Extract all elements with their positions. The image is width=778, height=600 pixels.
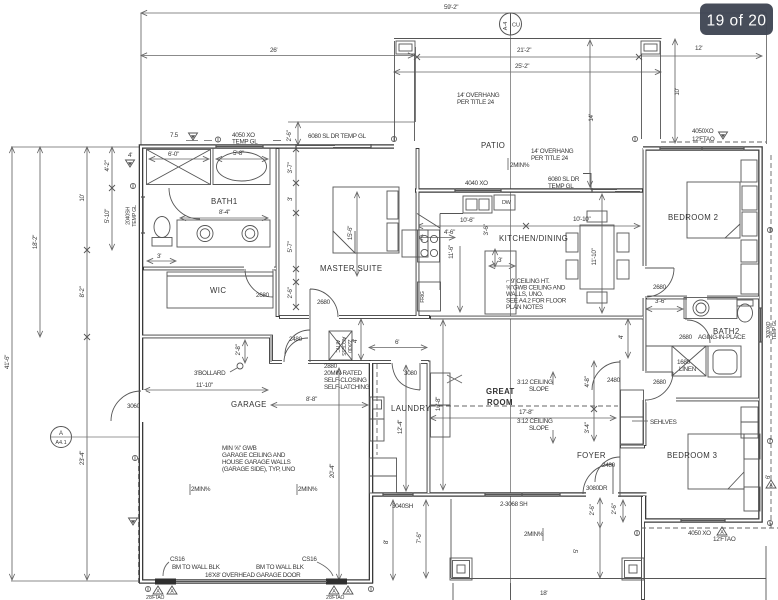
svg-text:3'-6": 3'-6"	[483, 224, 490, 235]
svg-text:SLOPE: SLOPE	[529, 425, 549, 432]
svg-text:2480: 2480	[607, 377, 621, 384]
svg-text:12'FTAO: 12'FTAO	[692, 136, 715, 143]
svg-text:8'-2": 8'-2"	[79, 286, 86, 297]
svg-text:8'-4": 8'-4"	[219, 209, 230, 216]
svg-text:41'-6": 41'-6"	[4, 355, 11, 369]
svg-text:PLAN NOTES: PLAN NOTES	[506, 304, 543, 311]
svg-text:26': 26'	[270, 47, 277, 54]
svg-text:2-3068 SH: 2-3068 SH	[500, 501, 528, 508]
svg-text:16'-8": 16'-8"	[435, 397, 442, 411]
svg-text:8': 8'	[383, 540, 390, 544]
svg-text:10'-6": 10'-6"	[460, 217, 474, 224]
svg-text:10': 10'	[674, 88, 681, 95]
svg-text:MIN ⅝" GWB: MIN ⅝" GWB	[222, 445, 257, 452]
svg-text:2880: 2880	[324, 363, 338, 370]
svg-text:(GARAGE SIDE), TYP, UNO: (GARAGE SIDE), TYP, UNO	[222, 466, 295, 473]
svg-text:2480: 2480	[289, 336, 303, 343]
svg-text:PATIO: PATIO	[481, 141, 505, 150]
svg-text:20'-4": 20'-4"	[329, 464, 336, 478]
svg-text:BEDROOM 3: BEDROOM 3	[667, 451, 717, 460]
svg-text:LAUNDRY: LAUNDRY	[391, 404, 431, 413]
svg-text:12'-4": 12'-4"	[397, 420, 404, 434]
svg-text:LINEN: LINEN	[679, 366, 697, 373]
svg-text:14': 14'	[588, 114, 595, 121]
svg-text:7'-6": 7'-6"	[416, 532, 423, 543]
svg-text:4'-2": 4'-2"	[104, 160, 111, 171]
svg-text:2'-6": 2'-6"	[611, 503, 618, 514]
svg-text:3'-7": 3'-7"	[287, 162, 294, 173]
svg-text:4': 4'	[618, 335, 625, 339]
svg-text:2'-6": 2'-6"	[589, 504, 596, 515]
svg-text:FOYER: FOYER	[577, 451, 606, 460]
svg-text:15'-6": 15'-6"	[347, 226, 354, 240]
svg-text:TEMP GL: TEMP GL	[548, 183, 574, 190]
svg-text:5'-10": 5'-10"	[104, 209, 111, 223]
svg-text:6080 SL DR TEMP GL: 6080 SL DR TEMP GL	[308, 133, 367, 140]
svg-text:TEMP GL: TEMP GL	[232, 139, 258, 146]
svg-text:2680: 2680	[679, 334, 693, 341]
svg-text:2680: 2680	[256, 292, 270, 299]
svg-text:GREAT: GREAT	[486, 387, 515, 396]
svg-text:2040SH: 2040SH	[126, 207, 132, 225]
svg-text:2MIN%: 2MIN%	[298, 486, 318, 493]
svg-text:BM TO WALL BLK: BM TO WALL BLK	[172, 564, 221, 571]
svg-text:11'-6": 11'-6"	[448, 245, 455, 259]
svg-text:17'-8": 17'-8"	[519, 409, 533, 416]
svg-text:5'-7": 5'-7"	[287, 241, 294, 252]
svg-text:14' OVERHANG: 14' OVERHANG	[457, 92, 500, 99]
svg-text:11'-10": 11'-10"	[591, 248, 598, 265]
svg-text:11'-10": 11'-10"	[196, 382, 213, 389]
svg-text:6'-0": 6'-0"	[168, 151, 179, 158]
svg-text:59'-2": 59'-2"	[444, 4, 458, 11]
svg-text:5': 5'	[573, 549, 580, 553]
svg-text:2'8'FTAO: 2'8'FTAO	[146, 595, 164, 600]
svg-text:12': 12'	[695, 45, 702, 52]
svg-text:4'-6": 4'-6"	[444, 229, 455, 236]
svg-text:4050XO: 4050XO	[692, 128, 714, 135]
svg-text:3:12 CEILING: 3:12 CEILING	[517, 379, 553, 386]
svg-text:2MIN%: 2MIN%	[524, 531, 544, 538]
svg-text:6080 SL DR: 6080 SL DR	[548, 176, 580, 183]
svg-text:ACCESS: ACCESS	[340, 337, 346, 357]
svg-text:SELF-CLOSING: SELF-CLOSING	[324, 377, 367, 384]
svg-text:MASTER SUITE: MASTER SUITE	[320, 264, 382, 273]
svg-text:10': 10'	[79, 194, 86, 201]
svg-text:HOUSE GARAGE WALLS: HOUSE GARAGE WALLS	[222, 459, 291, 466]
svg-text:3060: 3060	[127, 403, 141, 410]
svg-text:4'-8": 4'-8"	[584, 376, 591, 387]
svg-text:2680: 2680	[653, 284, 667, 291]
svg-text:2'8'FTAO: 2'8'FTAO	[326, 595, 344, 600]
svg-text:3080DR: 3080DR	[586, 485, 608, 492]
svg-text:10'-10": 10'-10"	[573, 216, 591, 223]
svg-text:KITCHEN/DINING: KITCHEN/DINING	[499, 234, 568, 243]
svg-text:DW: DW	[502, 200, 512, 206]
svg-text:5'-8": 5'-8"	[233, 150, 244, 157]
svg-text:6': 6'	[395, 339, 399, 346]
svg-text:25'-2": 25'-2"	[515, 63, 529, 70]
svg-text:PER TITLE 24: PER TITLE 24	[531, 155, 569, 162]
svg-text:3': 3'	[287, 197, 294, 201]
svg-text:4040 XO: 4040 XO	[465, 180, 488, 187]
svg-text:4': 4'	[128, 152, 132, 159]
svg-text:SEHLVES: SEHLVES	[650, 419, 677, 426]
svg-text:CU: CU	[512, 23, 520, 29]
svg-text:CS16: CS16	[302, 556, 317, 563]
svg-text:18': 18'	[540, 590, 547, 597]
svg-text:BEDROOM 2: BEDROOM 2	[668, 213, 718, 222]
svg-text:ATTIC: ATTIC	[334, 340, 340, 353]
svg-text:4': 4'	[352, 339, 359, 343]
svg-text:TEMP GL: TEMP GL	[772, 320, 778, 340]
svg-text:ROOM: ROOM	[487, 398, 513, 407]
svg-text:3080: 3080	[404, 370, 418, 377]
svg-text:3'-4": 3'-4"	[584, 422, 591, 433]
svg-text:2680: 2680	[317, 299, 331, 306]
svg-text:AGING-IN-PLACE: AGING-IN-PLACE	[698, 334, 745, 341]
svg-text:SLOPE: SLOPE	[529, 386, 549, 393]
svg-text:18'-2": 18'-2"	[32, 235, 39, 249]
svg-text:7.5: 7.5	[170, 132, 179, 139]
svg-text:A-4: A-4	[503, 22, 509, 31]
svg-text:23'-4": 23'-4"	[79, 451, 86, 465]
svg-text:19 of 20: 19 of 20	[706, 13, 766, 30]
svg-text:1680: 1680	[677, 359, 691, 366]
svg-text:2'-6": 2'-6"	[286, 130, 293, 141]
svg-text:20MIN RATED: 20MIN RATED	[324, 370, 363, 377]
svg-text:2MIN%: 2MIN%	[510, 162, 530, 169]
svg-text:8'-8": 8'-8"	[306, 396, 317, 403]
svg-text:21'-2": 21'-2"	[517, 47, 531, 54]
svg-text:3:12 CEILING: 3:12 CEILING	[517, 418, 553, 425]
svg-text:2480: 2480	[602, 462, 616, 469]
svg-text:14' OVERHANG: 14' OVERHANG	[531, 148, 574, 155]
svg-text:4050 XO: 4050 XO	[688, 530, 711, 537]
svg-text:GARAGE: GARAGE	[231, 400, 267, 409]
svg-text:CS16: CS16	[170, 556, 185, 563]
svg-text:2MIN%: 2MIN%	[191, 486, 211, 493]
svg-text:2'-8": 2'-8"	[235, 344, 242, 355]
svg-text:12'FTAO: 12'FTAO	[713, 536, 736, 543]
svg-text:3'-6": 3'-6"	[655, 298, 666, 305]
svg-text:GARAGE CEILING AND: GARAGE CEILING AND	[222, 452, 286, 459]
svg-text:3040SH: 3040SH	[392, 503, 414, 510]
svg-text:TEMP GL: TEMP GL	[132, 205, 138, 227]
svg-text:6': 6'	[765, 475, 772, 479]
svg-text:BATH1: BATH1	[211, 197, 238, 206]
svg-text:3': 3'	[157, 253, 161, 260]
svg-text:FRIG: FRIG	[420, 291, 426, 302]
svg-text:3': 3'	[498, 257, 502, 264]
svg-text:2'-6": 2'-6"	[287, 287, 294, 298]
svg-text:WIC: WIC	[210, 286, 226, 295]
svg-text:16'X8' OVERHEAD GARAGE DOOR: 16'X8' OVERHEAD GARAGE DOOR	[205, 572, 301, 579]
svg-text:A4.1: A4.1	[55, 440, 66, 446]
svg-text:2680: 2680	[653, 379, 667, 386]
svg-text:PER TITLE 24: PER TITLE 24	[457, 99, 495, 106]
svg-text:BM TO WALL BLK: BM TO WALL BLK	[256, 564, 305, 571]
svg-text:SELF-LATCHING: SELF-LATCHING	[324, 384, 370, 391]
svg-text:3'BOLLARD: 3'BOLLARD	[194, 370, 226, 377]
svg-text:A: A	[59, 431, 63, 437]
